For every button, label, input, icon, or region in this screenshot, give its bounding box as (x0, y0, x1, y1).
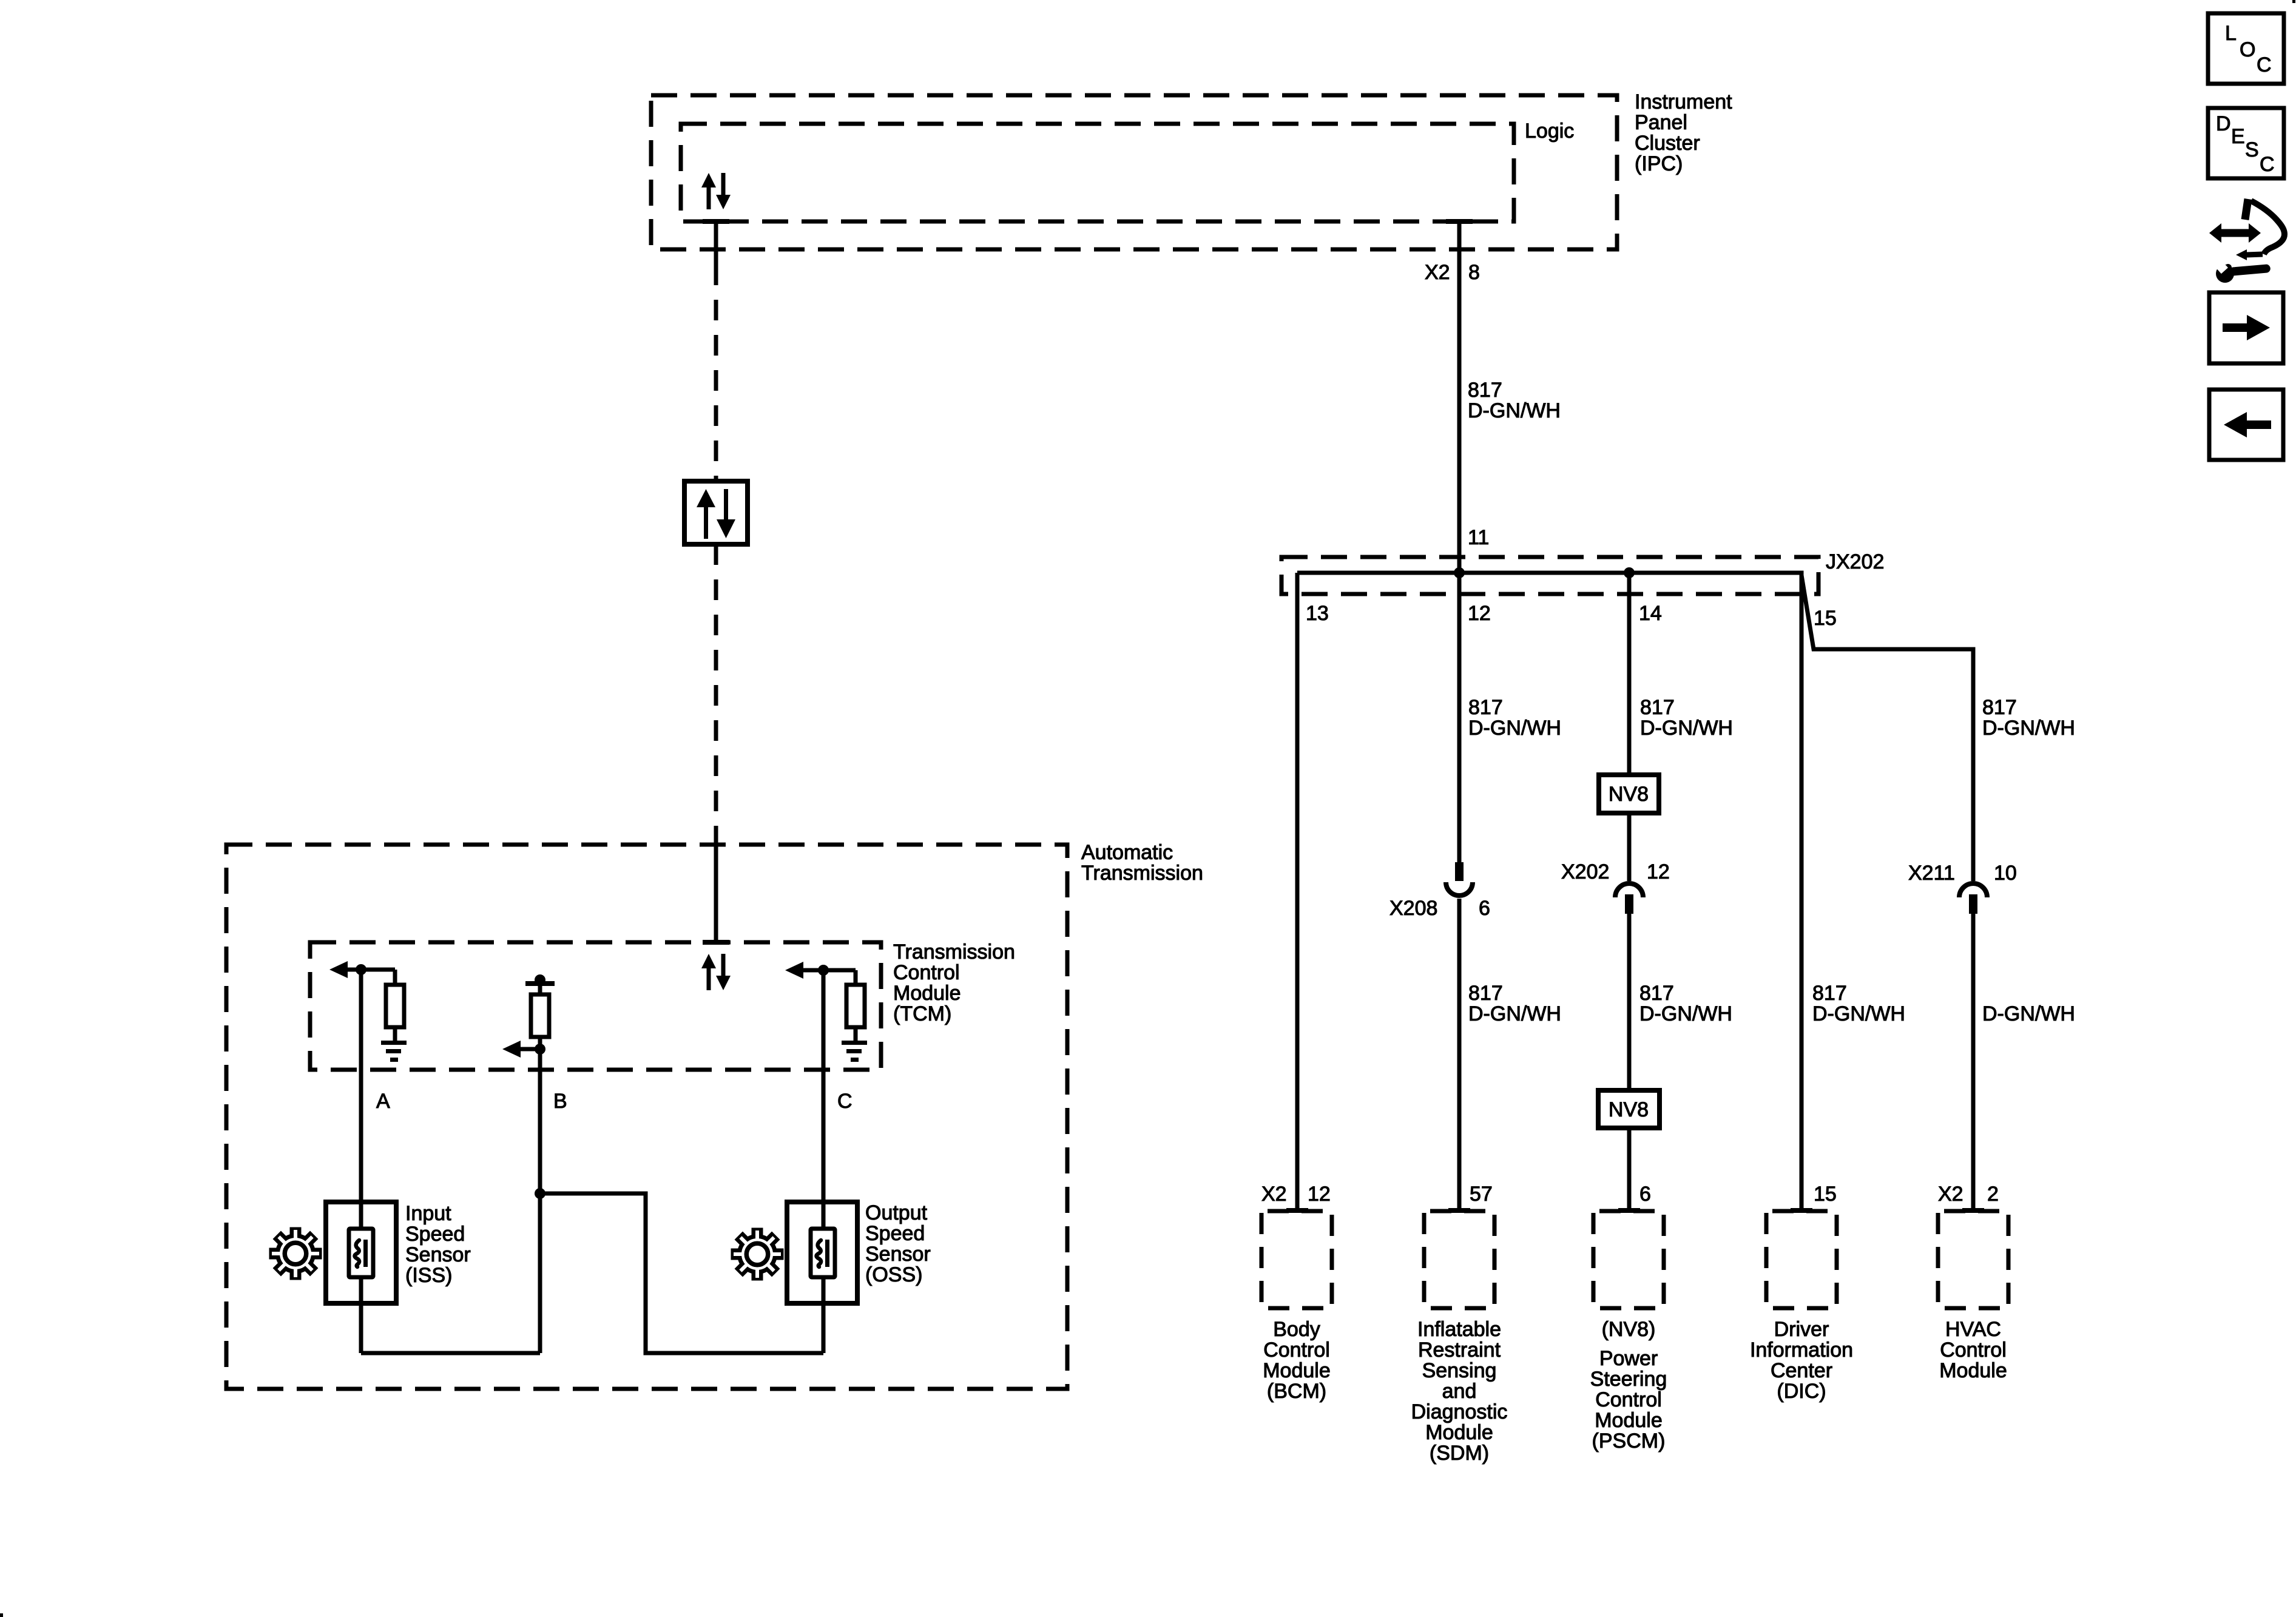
wire HVAC to module (1971, 914, 1976, 1211)
junction dot pin A node (356, 964, 366, 975)
ground symbol A (381, 1041, 407, 1062)
svg-text:X2: X2 (1261, 1183, 1287, 1206)
pin tick SDM (1448, 1208, 1470, 1213)
svg-text:C: C (2257, 53, 2272, 76)
svg-text:X211: X211 (1908, 862, 1955, 885)
wire PSCM to module (1627, 1128, 1632, 1211)
svg-text:X202: X202 (1561, 860, 1609, 883)
junction dot bus-SDM (1454, 567, 1465, 578)
svg-text:15: 15 (1814, 1183, 1837, 1206)
svg-text:A: A (376, 1090, 390, 1113)
wire pin B vertical (538, 1049, 542, 1353)
resistor R-A lower lead (393, 1027, 397, 1041)
svg-text:15: 15 (1814, 607, 1837, 630)
inline connector NV8 lower box (1598, 1090, 1660, 1128)
junction dot pin B node (535, 1044, 545, 1055)
bus wire JX202 and DIC drop (1297, 573, 1801, 1211)
module box HVAC dashed (1938, 1211, 2008, 1308)
svg-text:E: E (2231, 125, 2245, 148)
pin tick HVAC (1962, 1208, 1984, 1213)
pin tick DIC (1791, 1208, 1812, 1213)
pin tick at TCM top (serial data line) (703, 940, 729, 945)
pin tick at Logic box bottom (serial data line) (703, 219, 729, 224)
wire BCM branch (1295, 573, 1300, 1211)
connector X211 socket arc (1959, 883, 1987, 897)
junction dot pin B top (535, 974, 545, 985)
svg-text:B: B (553, 1090, 567, 1113)
sensor box Input Speed Sensor (ISS) (326, 1202, 396, 1303)
svg-text:6: 6 (1639, 1183, 1651, 1206)
module box SDM dashed (1424, 1211, 1494, 1308)
icon box back arrow (2209, 390, 2283, 460)
resistor R-C lower lead (854, 1027, 858, 1041)
svg-text:X2: X2 (1425, 261, 1450, 284)
wire ISS to B bottom run (361, 1351, 540, 1355)
wire serial data solid segment below Logic (714, 221, 718, 265)
svg-text:10: 10 (1994, 862, 2017, 885)
pin tick PSCM (1618, 1208, 1640, 1213)
ground symbol C (842, 1041, 867, 1062)
junction dot B branch (535, 1188, 545, 1199)
svg-text:C: C (2260, 153, 2275, 176)
serial data arrows in symbol box (697, 489, 735, 539)
svg-text:12: 12 (1308, 1183, 1331, 1206)
svg-text:X208: X208 (1389, 897, 1437, 920)
wire serial data dashed to serial box (714, 265, 718, 481)
wire B to OSS jog (540, 1193, 823, 1353)
wire PSCM between NV8 and X202 (1627, 813, 1632, 881)
svg-text:Logic: Logic (1525, 120, 1574, 143)
pin tick BCM (1286, 1208, 1308, 1213)
wire pin C vertical (822, 970, 826, 1353)
svg-text:12: 12 (1468, 602, 1491, 625)
junction block JX202 dashed box (1281, 557, 1818, 594)
icon vehicle service (double arrow, vehicle outline, wrench) (2209, 199, 2284, 283)
svg-text:D-GN/WH: D-GN/WH (1982, 1002, 2075, 1025)
icon box forward arrow (2209, 292, 2283, 363)
ISS element symbol (349, 1229, 373, 1277)
svg-text:PowerSteeringControlModule(PSC: PowerSteeringControlModule(PSCM) (1590, 1347, 1667, 1453)
resistor R-B lead (538, 984, 542, 994)
svg-text:X2: X2 (1938, 1183, 1963, 1206)
TCM pin A internal arrow (346, 968, 395, 972)
icon box LOC (2208, 13, 2284, 84)
svg-text:13: 13 (1306, 602, 1329, 625)
serial data arrows in TCM (701, 954, 731, 990)
svg-text:2: 2 (1987, 1183, 1999, 1206)
back arrow glyph (2246, 420, 2271, 429)
junction dot pin C node (818, 965, 829, 976)
svg-text:C: C (837, 1090, 853, 1113)
svg-text:6: 6 (1479, 897, 1490, 920)
TCM pin C internal arrow (803, 968, 856, 973)
OSS element symbol (811, 1229, 835, 1277)
wire HVAC branch jog (1801, 575, 1973, 881)
svg-text:OutputSpeedSensor(OSS): OutputSpeedSensor(OSS) (865, 1201, 931, 1286)
module box BCM dashed (1261, 1211, 1332, 1308)
resistor R-A lead (393, 970, 397, 985)
TCM pin B internal arrow (517, 1047, 540, 1052)
svg-text:L: L (2225, 22, 2237, 45)
resistor R-C (846, 985, 865, 1027)
wire serial data solid into TCM (714, 839, 718, 942)
connector X202 socket arc (1615, 883, 1643, 897)
svg-text:D: D (2216, 112, 2231, 135)
module box TCM dashed (310, 942, 881, 1070)
serial data symbol box (684, 481, 748, 544)
svg-text:S: S (2245, 138, 2259, 161)
module box Automatic Transmission dashed (226, 845, 1067, 1389)
svg-text:(NV8): (NV8) (1602, 1318, 1656, 1341)
svg-text:NV8: NV8 (1609, 783, 1649, 806)
svg-text:O: O (2240, 38, 2255, 61)
wire SDM branch upper (1457, 573, 1462, 862)
TCM pin B top bar (525, 981, 555, 986)
svg-text:57: 57 (1470, 1183, 1493, 1206)
wire PSCM between X202 and NV8 lower (1627, 914, 1632, 1090)
connector X202 blade (1625, 894, 1633, 914)
wire PSCM branch upper (1627, 573, 1632, 775)
resistor R-C lead (854, 970, 858, 985)
connector X208 socket arc (1446, 882, 1473, 896)
inline connector NV8 upper box (1599, 775, 1659, 813)
resistor R-B lower lead (538, 1037, 542, 1049)
page mark bottom left (0, 1613, 3, 1617)
page mark top right (2292, 0, 2295, 3)
svg-text:11: 11 (1468, 526, 1489, 549)
svg-text:14: 14 (1639, 602, 1662, 625)
connector X208 blade (1455, 862, 1464, 881)
resistor R-A (386, 985, 404, 1027)
sensor box Output Speed Sensor (OSS) (787, 1202, 857, 1303)
connector X211 blade (1969, 894, 1977, 914)
gear icon OSS (731, 1228, 784, 1281)
svg-text:NV8: NV8 (1609, 1098, 1649, 1121)
svg-text:JX202: JX202 (1826, 550, 1884, 573)
forward arrow glyph (2223, 323, 2248, 332)
module box Logic dashed (681, 124, 1514, 221)
module box Instrument Panel Cluster (IPC) dashed (651, 95, 1617, 249)
wire IPC pin 8 to JX202 (1457, 221, 1462, 573)
pin tick IPC X2-8 (1446, 219, 1473, 224)
junction dot bus-PSCM (1624, 567, 1635, 578)
gear icon ISS (269, 1227, 322, 1280)
svg-text:HVACControlModule: HVACControlModule (1939, 1318, 2007, 1382)
resistor R-B (531, 994, 549, 1037)
svg-text:12: 12 (1647, 860, 1670, 883)
wire serial data dashed to Automatic Transmission (714, 544, 718, 839)
wire pin A vertical (359, 970, 363, 1353)
serial data arrows in IPC logic (701, 173, 731, 209)
icon box DESC (2208, 108, 2284, 178)
module box DIC dashed (1766, 1211, 1837, 1308)
module box PSCM dashed (1593, 1211, 1664, 1308)
wire SDM branch lower (1457, 899, 1462, 1211)
svg-text:8: 8 (1468, 261, 1480, 284)
